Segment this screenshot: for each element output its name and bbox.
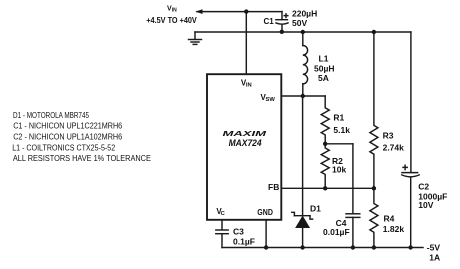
junction C4 / output rail <box>351 245 355 249</box>
wire VIN top rail <box>197 11 282 13</box>
wire FB <box>281 187 374 189</box>
junction D1 / output rail <box>300 245 304 249</box>
svg-text:1A: 1A <box>429 253 440 263</box>
svg-text:50V: 50V <box>292 18 307 28</box>
svg-text:MAX724: MAX724 <box>229 137 263 148</box>
svg-text:D1: D1 <box>310 203 321 213</box>
junction R1 / R2 / C4 branch <box>323 142 327 146</box>
label C1 plus sign <box>284 14 288 18</box>
wire VSW <box>281 95 325 97</box>
svg-text:R4: R4 <box>384 213 395 223</box>
svg-text:10k: 10k <box>332 165 346 175</box>
junction VIN rail / IC feed <box>244 9 248 13</box>
svg-text:R3: R3 <box>383 131 394 141</box>
label C2 plus sign <box>403 165 407 169</box>
diode D1 <box>302 96 304 216</box>
svg-text:2.74k: 2.74k <box>383 143 405 153</box>
svg-text:L1: L1 <box>319 54 329 64</box>
resistor R3 <box>370 32 378 188</box>
resistor R4 <box>370 188 378 247</box>
svg-text:R1: R1 <box>333 113 344 123</box>
inductor L1 <box>302 32 304 46</box>
junction L1 / ground rail <box>301 30 305 34</box>
capacitor C4 <box>352 144 354 214</box>
wire VIN feed to IC pin <box>245 12 247 75</box>
svg-text:+4.5V TO +40V: +4.5V TO +40V <box>146 16 197 25</box>
svg-text:IN: IN <box>172 8 177 14</box>
junction R2 / FB wire <box>323 186 327 190</box>
svg-text:C2: C2 <box>418 182 429 192</box>
resistor R2 <box>321 144 329 189</box>
svg-text:10V: 10V <box>418 200 433 210</box>
svg-text:GND: GND <box>257 207 273 217</box>
wire VC pin <box>221 220 223 230</box>
svg-text:5.1k: 5.1k <box>333 125 350 135</box>
capacitor C1 <box>281 12 283 20</box>
svg-text:L1 - COILTRONICS CTX25-5-52: L1 - COILTRONICS CTX25-5-52 <box>12 143 115 152</box>
svg-text:C1: C1 <box>264 17 275 26</box>
svg-text:IN: IN <box>246 82 252 88</box>
capacitor C2 <box>410 32 412 172</box>
junction R3 / ground rail <box>372 30 376 34</box>
svg-text:ALL RESISTORS HAVE 1% TOLERANC: ALL RESISTORS HAVE 1% TOLERANCE <box>13 154 151 163</box>
junction GND / output rail <box>264 245 268 249</box>
wire GND pin <box>265 220 267 248</box>
svg-text:C1 - NICHICON UPL1C221MRH6: C1 - NICHICON UPL1C221MRH6 <box>13 122 122 131</box>
node VIN input arrowhead <box>196 9 203 14</box>
svg-text:0.1µF: 0.1µF <box>233 237 255 247</box>
junction C2 / output rail <box>408 245 412 249</box>
svg-text:C2 - NICHICON UPL1A102MRH6: C2 - NICHICON UPL1A102MRH6 <box>13 133 122 142</box>
junction L1 / VSW wire <box>301 94 305 98</box>
svg-text:SW: SW <box>266 97 276 103</box>
wire ground rail <box>195 31 411 33</box>
svg-text:FB: FB <box>268 182 279 192</box>
svg-text:5A: 5A <box>318 73 329 83</box>
IC U1 MAX724 box <box>207 74 281 220</box>
svg-text:220µH: 220µH <box>292 9 317 19</box>
svg-text:C3: C3 <box>233 227 244 237</box>
resistor R1 <box>321 96 329 144</box>
ground <box>194 32 196 39</box>
junction C1 / ground rail <box>280 30 284 34</box>
note text block <box>12 111 151 163</box>
wire output rail <box>222 247 423 249</box>
junction R3 / R4 / FB wire <box>372 186 376 190</box>
svg-text:50µH: 50µH <box>314 64 335 74</box>
svg-text:0.01µF: 0.01µF <box>323 227 350 237</box>
junction R4 / output rail <box>372 245 376 249</box>
wire C4 branch horizontal <box>325 143 353 145</box>
svg-text:1.82k: 1.82k <box>383 224 405 234</box>
svg-text:-5V: -5V <box>427 243 441 253</box>
capacitor C3 <box>216 229 228 231</box>
svg-text:D1 - MOTOROLA MBR745: D1 - MOTOROLA MBR745 <box>13 111 89 120</box>
